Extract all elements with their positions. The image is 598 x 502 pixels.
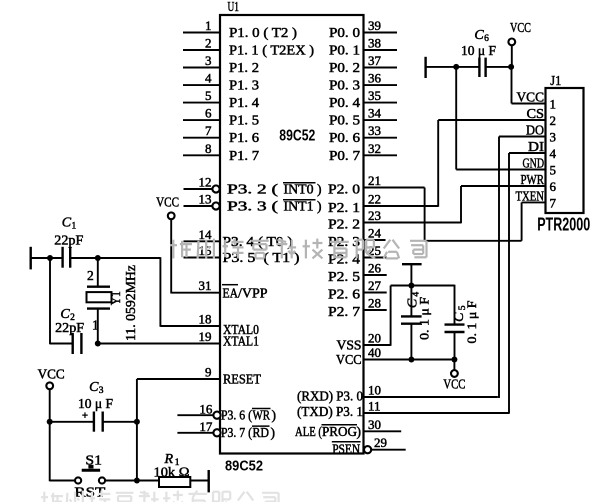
wire GND up to C6 rail	[455, 67, 457, 170]
svg-text:PTR2000: PTR2000	[537, 214, 590, 234]
J1 pin 2 (CS)	[438, 106, 556, 128]
svg-text:P0. 0: P0. 0	[329, 25, 360, 40]
svg-text:EA: EA	[223, 285, 239, 300]
U1 pin 38 (P0. 1)	[329, 36, 397, 58]
svg-text:33: 33	[368, 123, 381, 138]
svg-text:C: C	[62, 216, 72, 231]
svg-text:3: 3	[99, 386, 104, 396]
svg-text:TXEN: TXEN	[516, 188, 545, 203]
switch S1 contacts	[75, 477, 105, 483]
wire DO to P3.0	[498, 137, 500, 398]
svg-text:32: 32	[368, 141, 381, 156]
VCC terminal (top right)	[508, 20, 531, 67]
label RST	[74, 485, 106, 500]
resistor R1 right lead	[190, 480, 208, 482]
svg-text:VCC: VCC	[38, 366, 65, 381]
svg-text:35: 35	[368, 88, 381, 103]
svg-text:18: 18	[199, 312, 212, 327]
svg-text:17: 17	[199, 419, 213, 434]
svg-text:P0. 2: P0. 2	[329, 60, 360, 75]
svg-text:PSEN: PSEN	[332, 442, 360, 457]
svg-text:P1. 4: P1. 4	[229, 95, 259, 110]
wire CS to P2.1	[437, 120, 439, 207]
wire RESET vertical	[136, 379, 138, 481]
wire VSS vertical	[390, 286, 392, 346]
U1 pin 37 (P0. 2)	[329, 53, 397, 75]
svg-text:P3. 2 (: P3. 2 (	[227, 182, 279, 197]
U1 pin 22 (P2. 1)	[328, 192, 438, 216]
svg-text:S1: S1	[85, 452, 102, 467]
wire P2.0 vertical	[424, 188, 426, 242]
svg-text:P1. 3: P1. 3	[229, 78, 259, 93]
svg-text:4: 4	[550, 146, 557, 161]
U1 pin 15 (P3.5/T1)	[184, 243, 300, 265]
U1 pin 35 (P0. 4)	[329, 88, 397, 110]
capacitor C3 plates	[94, 412, 103, 432]
junction dot C4/VCC line	[408, 357, 414, 363]
svg-text:2: 2	[87, 268, 94, 283]
switch S1 label	[85, 452, 102, 467]
U1 pin 3 (P1. 2)	[183, 53, 259, 75]
svg-text:P1. 2: P1. 2	[229, 60, 259, 75]
svg-text:(TXD) P3. 1: (TXD) P3. 1	[297, 404, 363, 419]
svg-text:16: 16	[199, 401, 213, 416]
svg-text:P1. 7: P1. 7	[229, 148, 259, 163]
label C1	[62, 216, 77, 232]
IC U1 89C52 body	[220, 15, 364, 454]
svg-text:P0. 7: P0. 7	[329, 148, 360, 163]
terminal bar (right of R1)	[207, 470, 209, 492]
svg-text:P3. 6 (: P3. 6 (	[221, 408, 252, 423]
U1 pin 13 (P3.3/INT1)	[184, 192, 322, 214]
svg-text:P1. 0 ( T2 ): P1. 0 ( T2 )	[229, 25, 297, 40]
svg-text:RESET: RESET	[223, 372, 262, 387]
label Y1 value 11.0592MHz (rotated)	[123, 265, 138, 341]
U1 pin 11 (TXD/P3.1)	[297, 399, 509, 419]
U1 pin 6 (P1. 5)	[183, 106, 259, 128]
svg-text:P1. 1 ( T2EX ): P1. 1 ( T2EX )	[229, 43, 314, 58]
U1 pin 4 (P1. 3)	[183, 71, 259, 93]
VCC terminal (bottom right)	[443, 360, 465, 392]
U1 pin 16 (P3.6/WR)	[177, 401, 276, 422]
C4 lower lead	[410, 324, 412, 360]
U1 pin 18 (XTAL0)	[160, 312, 259, 338]
U1 pin 19 (XTAL1)	[98, 329, 259, 349]
label PTR2000	[537, 214, 590, 234]
svg-text:11. 0592MHz: 11. 0592MHz	[123, 265, 138, 341]
svg-text:37: 37	[368, 53, 382, 68]
svg-text:22: 22	[368, 192, 381, 207]
U1 pin 40 (VCC)	[336, 345, 456, 367]
wire PWR to P2.2	[460, 186, 462, 223]
svg-text:ALE (: ALE (	[295, 424, 322, 439]
svg-text:J1: J1	[550, 74, 561, 89]
wire TXEN vertical	[521, 202, 523, 240]
U1 pin 2 (P1. 1)	[183, 36, 314, 58]
svg-text:Y1: Y1	[108, 291, 123, 305]
svg-text:): )	[357, 424, 362, 439]
svg-text:/VPP: /VPP	[238, 285, 268, 300]
J1 pin 1 (VCC)	[512, 90, 557, 112]
svg-text:38: 38	[368, 36, 381, 51]
svg-text:VCC: VCC	[510, 20, 531, 35]
label C6	[474, 28, 489, 44]
svg-text:3: 3	[205, 53, 212, 68]
svg-text:24: 24	[368, 226, 382, 241]
svg-text:P3. 7 (: P3. 7 (	[221, 425, 252, 440]
svg-text:3: 3	[550, 130, 557, 145]
svg-text:VSS: VSS	[337, 338, 362, 353]
svg-text:): )	[272, 408, 277, 423]
U1 pin 14 (P3.4/T0)	[184, 227, 293, 249]
svg-text:23: 23	[368, 208, 381, 223]
capacitor C3 plus sign	[82, 410, 88, 422]
label C2	[60, 307, 75, 323]
U1 pin 20 (VSS)	[337, 331, 391, 353]
svg-text:RD: RD	[253, 425, 270, 440]
U1 pin 17 (P3.7/RD)	[177, 419, 275, 440]
svg-text:VCC: VCC	[336, 352, 362, 367]
svg-text:36: 36	[368, 71, 382, 86]
crystal Y1 pin 2 label	[87, 268, 94, 283]
C5 upper lead	[454, 285, 456, 325]
label C6 value 10uF	[461, 43, 496, 58]
svg-text:40: 40	[368, 345, 381, 360]
svg-text:P1. 6: P1. 6	[229, 130, 259, 145]
U1 pin 26 (P2. 5)	[328, 261, 387, 285]
junction dot at C1/C2 branch	[47, 255, 53, 261]
crystal Y1 top plate	[87, 286, 110, 288]
junction dot rail/GND	[453, 64, 459, 70]
U1 pin 1 (P1. 0)	[183, 18, 297, 40]
svg-text:+: +	[82, 410, 88, 422]
svg-text:PWR: PWR	[521, 172, 545, 187]
svg-text:CS: CS	[527, 106, 545, 121]
U1 pin 21 (P2. 0)	[328, 173, 425, 197]
svg-text:P2. 7: P2. 7	[328, 304, 360, 319]
crystal Y1 body	[87, 292, 112, 302]
watermark bottom	[41, 491, 279, 502]
svg-text:14: 14	[199, 227, 213, 242]
wire VCC to pin31	[170, 219, 172, 294]
capacitor C6 plates	[479, 58, 485, 77]
svg-text:WR: WR	[253, 408, 271, 423]
watermark middle	[170, 239, 427, 259]
svg-text:VCC: VCC	[443, 377, 465, 392]
crystal Y1 bottom plate	[87, 307, 110, 309]
svg-text:P1. 5: P1. 5	[229, 113, 259, 128]
U1 pin 5 (P1. 4)	[183, 88, 259, 110]
C6 rail left segment	[426, 66, 480, 68]
svg-text:VCC: VCC	[517, 90, 545, 105]
VCC terminal (EA/VPP)	[156, 194, 179, 219]
U1 pin 9 (RESET)	[137, 365, 262, 387]
svg-text:11: 11	[368, 399, 381, 414]
wire S1 to R1	[105, 480, 159, 482]
svg-text:26: 26	[368, 261, 382, 276]
svg-text:7: 7	[550, 195, 557, 210]
wire C1 right to XTAL0 corner	[70, 257, 160, 259]
svg-text:2: 2	[205, 36, 212, 51]
svg-text:P0. 6: P0. 6	[329, 130, 360, 145]
junction dot C3 right	[134, 419, 140, 425]
wire C3 right	[103, 421, 137, 423]
svg-text:29: 29	[374, 435, 387, 450]
svg-text:28: 28	[368, 296, 381, 311]
VCC terminal (reset)	[38, 366, 65, 389]
svg-text:INT0: INT0	[284, 182, 314, 197]
switch S1 actuator	[82, 465, 100, 471]
label C1 value 22pF	[54, 232, 84, 247]
label C4 value (rotated)	[417, 297, 432, 340]
U1 pin 7 (P1. 6)	[183, 123, 259, 145]
label R1	[164, 452, 180, 468]
svg-text:GND: GND	[523, 156, 545, 171]
svg-text:P2. 1: P2. 1	[328, 200, 360, 215]
svg-text:12: 12	[199, 175, 212, 190]
J1 pin 5 (GND)	[456, 156, 556, 178]
J1 pin 4 (DI)	[509, 139, 557, 161]
U1 part number 89C52 (inside)	[279, 128, 315, 145]
svg-text:5: 5	[550, 163, 557, 178]
capacitor C4 plates	[401, 316, 422, 323]
U1 pin 34 (P0. 5)	[329, 106, 397, 128]
svg-text:C: C	[89, 380, 99, 395]
svg-text:4: 4	[412, 292, 422, 297]
U1 pin 39 (P0. 0)	[329, 18, 397, 40]
svg-text:2: 2	[550, 113, 557, 128]
svg-text:7: 7	[205, 123, 212, 138]
svg-text:): )	[317, 182, 322, 197]
capacitor C1 plates	[63, 247, 71, 268]
svg-text:1: 1	[550, 97, 557, 112]
svg-text:P0. 3: P0. 3	[329, 78, 360, 93]
wire vertical C1-C2 left link	[49, 257, 51, 344]
junction dot at crystal top	[95, 255, 101, 261]
U1 pin 31 (EA/VPP)	[171, 278, 267, 300]
svg-text:0. 1 μ F: 0. 1 μ F	[464, 301, 479, 344]
resistor R1 body	[159, 477, 190, 487]
connector J1 body	[546, 88, 584, 213]
wire C1 left	[31, 257, 63, 259]
U1 pin 30 (ALE/PROG)	[295, 417, 401, 439]
svg-text:VCC: VCC	[156, 194, 179, 209]
svg-text:9: 9	[205, 365, 212, 380]
svg-text:6: 6	[205, 106, 212, 121]
wire TXEN horizontal	[424, 240, 522, 242]
svg-text:PROG: PROG	[322, 424, 357, 439]
U1 pin 24 (P2. 3)	[328, 226, 386, 250]
terminal bar (left of C6)	[424, 57, 426, 78]
label C3	[89, 380, 104, 396]
svg-text:22pF: 22pF	[55, 320, 85, 335]
svg-text:P3. 3 (: P3. 3 (	[227, 199, 279, 214]
U1 pin 32 (P0. 7)	[329, 141, 397, 163]
svg-text:21: 21	[368, 173, 381, 188]
U1 pin 10 (RXD/P3.0)	[297, 383, 498, 404]
svg-text:1: 1	[92, 318, 99, 333]
svg-text:DO: DO	[526, 123, 544, 138]
svg-text:INT1: INT1	[284, 199, 314, 214]
svg-text:20: 20	[368, 331, 381, 346]
svg-text:10: 10	[368, 383, 381, 398]
U1 pin 36 (P0. 3)	[329, 71, 397, 93]
svg-text:XTAL1: XTAL1	[223, 334, 259, 349]
C5 lower lead	[454, 332, 456, 360]
svg-text:C: C	[474, 28, 484, 43]
svg-text:P0. 1: P0. 1	[329, 43, 360, 58]
crystal Y1 pin 1 label	[92, 318, 99, 333]
capacitor C2 plates	[73, 333, 82, 354]
svg-text:P2. 5: P2. 5	[328, 269, 360, 284]
svg-text:10k Ω: 10k Ω	[154, 464, 190, 479]
svg-text:): )	[271, 425, 276, 440]
svg-text:U1: U1	[228, 0, 240, 15]
J1 pin 6 (PWR)	[461, 172, 557, 194]
svg-text:4: 4	[205, 71, 212, 86]
label C2 value 22pF	[55, 320, 85, 335]
svg-text:P2. 0: P2. 0	[328, 182, 360, 197]
svg-text:10 μ F: 10 μ F	[78, 396, 113, 411]
U1 pin 8 (P1. 7)	[183, 141, 259, 163]
junction dot rail/VCC	[508, 64, 514, 70]
svg-text:22pF: 22pF	[54, 232, 84, 247]
label R1 value 10k ohm	[154, 464, 190, 479]
svg-text:30: 30	[368, 417, 381, 432]
U1 part number 89C52 (below)	[225, 459, 263, 475]
label C5 (rotated)	[452, 305, 468, 322]
svg-text:10 μ F: 10 μ F	[461, 43, 496, 58]
svg-text:5: 5	[205, 88, 212, 103]
wire XTAL0 vertical	[159, 257, 161, 327]
wire J1-VCC up to rail	[511, 67, 513, 104]
capacitor C5 plates	[445, 325, 465, 332]
terminal bar (left of C1)	[30, 247, 32, 270]
U1 pin 12 (P3.2/INT0)	[184, 175, 322, 197]
U1 pin 27 (P2. 6)	[328, 278, 387, 302]
svg-text:(RXD) P3. 0: (RXD) P3. 0	[297, 388, 363, 403]
wire C3 left	[50, 421, 94, 423]
label C4 (rotated)	[405, 292, 421, 309]
svg-text:DI: DI	[528, 139, 545, 154]
U1 pin 29 (PSEN)	[332, 435, 406, 457]
U1 pin 25 (P2. 4)	[328, 243, 387, 267]
U1 pin 28 (P2. 7)	[328, 296, 387, 320]
J1 pin 3 (DO)	[499, 123, 556, 145]
U1 pin 23 (P2. 2)	[328, 208, 461, 232]
svg-text:1: 1	[205, 18, 212, 33]
U1 reference designator	[228, 0, 240, 15]
svg-text:0. 1 μ F: 0. 1 μ F	[417, 297, 432, 340]
label C3 value 10uF	[78, 396, 113, 411]
wire VCC down to RST row	[49, 389, 51, 481]
svg-text:P0. 4: P0. 4	[329, 95, 360, 110]
svg-text:89C52: 89C52	[279, 128, 315, 145]
svg-text:13: 13	[199, 192, 212, 207]
junction dot C5/VCC line	[451, 357, 457, 363]
svg-text:P2. 6: P2. 6	[328, 287, 360, 302]
svg-text:15: 15	[199, 243, 212, 258]
label C5 value (rotated)	[464, 301, 479, 344]
crystal Y1 bottom lead	[97, 309, 99, 344]
svg-text:19: 19	[199, 329, 212, 344]
stub bar above C4	[402, 263, 422, 265]
svg-text:): )	[317, 199, 322, 214]
svg-text:6: 6	[550, 179, 557, 194]
svg-text:31: 31	[199, 278, 212, 293]
J1 reference designator	[550, 74, 561, 89]
svg-text:89C52: 89C52	[225, 459, 263, 475]
svg-text:39: 39	[368, 18, 381, 33]
junction dot C3 left	[47, 419, 53, 425]
crystal Y1 top lead	[97, 258, 99, 287]
svg-text:P0. 5: P0. 5	[329, 113, 360, 128]
wire RST row left	[50, 480, 76, 482]
svg-text:34: 34	[368, 106, 382, 121]
C4 upper lead	[410, 264, 412, 316]
label Y1 (rotated)	[108, 291, 123, 305]
junction dot at crystal bottom	[95, 341, 101, 347]
VSS rail horizontal	[391, 285, 455, 287]
svg-text:P2. 2: P2. 2	[328, 217, 360, 232]
svg-text:27: 27	[368, 278, 382, 293]
C6 rail right segment	[486, 66, 512, 68]
U1 pin 33 (P0. 6)	[329, 123, 397, 145]
wire C2 left	[50, 343, 73, 345]
J1 pin 7 (TXEN)	[516, 188, 557, 210]
junction dot C4/rail	[408, 283, 414, 289]
junction dot RST row	[134, 478, 140, 484]
svg-text:8: 8	[205, 141, 212, 156]
wire DI to P3.1	[508, 153, 510, 414]
svg-text:1: 1	[72, 222, 77, 232]
